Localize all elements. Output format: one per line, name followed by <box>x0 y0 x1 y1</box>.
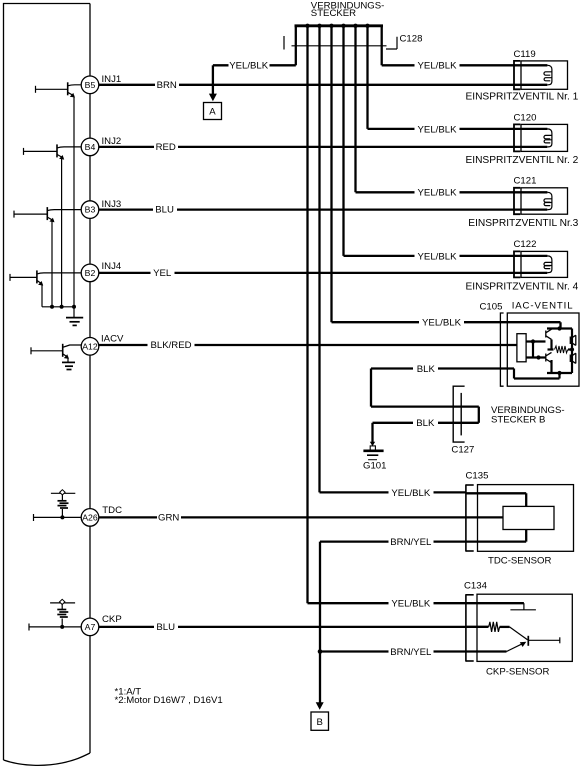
wire: YEL/BLK branch to injector 1 <box>382 64 548 66</box>
connector C128 (VERBINDUNGS-STECKER) <box>284 0 422 65</box>
svg-text:B3: B3 <box>85 205 96 215</box>
wire: BLU from pin A7 to CKP sensor <box>99 626 489 628</box>
CKP sensor internal: shield <box>466 603 536 610</box>
label YEL <box>151 268 175 279</box>
svg-text:YEL/BLK: YEL/BLK <box>418 61 458 72</box>
svg-text:INJ4: INJ4 <box>102 261 122 272</box>
label BLK (lower) <box>413 418 438 429</box>
wire: YEL/BLK branch to injector 2 <box>368 128 548 130</box>
svg-text:YEL/BLK: YEL/BLK <box>418 188 458 199</box>
svg-text:GRN: GRN <box>158 512 179 523</box>
svg-text:C127: C127 <box>451 444 474 455</box>
injector EINSPRITZVENTIL Nr.2 <box>521 124 568 151</box>
svg-text:C122: C122 <box>514 239 537 250</box>
injector C121 connector bracket <box>514 188 520 214</box>
svg-text:A7: A7 <box>85 622 96 632</box>
IAC internal transistors <box>546 329 576 363</box>
injector C119 connector bracket <box>514 61 520 89</box>
label RED <box>154 142 178 153</box>
svg-text:G101: G101 <box>363 461 386 472</box>
svg-text:RED: RED <box>156 142 176 153</box>
ground (injector drivers) <box>66 318 83 326</box>
svg-text:BRN/YEL: BRN/YEL <box>390 647 432 658</box>
IAC connector side rectangle <box>517 334 526 362</box>
svg-text:C128: C128 <box>400 33 423 44</box>
svg-text:A12: A12 <box>82 341 98 351</box>
transistor Q3 (INJ3 driver) <box>14 207 81 307</box>
svg-text:B5: B5 <box>85 80 96 90</box>
injector C122 connector bracket <box>514 251 520 277</box>
pin A7 <box>81 614 122 636</box>
svg-text:CKP-SENSOR: CKP-SENSOR <box>486 666 550 677</box>
svg-text:C134: C134 <box>464 581 488 592</box>
CKP sensor internal: output bar <box>528 636 560 646</box>
wire: bus 6 from C128 pin to injector 2 YEL/BLK branch <box>366 26 368 129</box>
svg-text:INJ2: INJ2 <box>102 136 122 147</box>
svg-text:STECKER: STECKER <box>311 8 356 19</box>
svg-text:STECKER B: STECKER B <box>491 415 545 426</box>
injector C120 connector bracket <box>514 124 520 151</box>
svg-text:C121: C121 <box>514 176 537 187</box>
TDC sensor internal wiring <box>466 493 526 541</box>
label VERBINDUNGS-STECKER B <box>491 405 565 426</box>
svg-text:C120: C120 <box>514 112 537 123</box>
svg-text:BLK: BLK <box>417 364 436 375</box>
TDC sensor element <box>503 506 554 529</box>
label BRN <box>155 80 179 91</box>
svg-text:YEL: YEL <box>153 268 172 279</box>
svg-text:*2:Motor D16W7 , D16V1: *2:Motor D16W7 , D16V1 <box>115 695 223 706</box>
wire: YEL/BLK branch to TDC sensor <box>320 491 467 493</box>
IAC internal junction dots <box>557 326 561 330</box>
wire: common emitter rail to ground <box>42 307 74 318</box>
injector EINSPRITZVENTIL Nr.4 <box>521 251 568 277</box>
wire: RED from pin B4 to injector 2 <box>99 146 548 148</box>
svg-text:YEL/BLK: YEL/BLK <box>229 61 269 72</box>
svg-text:CKP: CKP <box>102 614 122 625</box>
wire: BRN/YEL from TDC sensor down to CKP and connector B <box>320 542 466 704</box>
ground (IACV driver) <box>62 362 75 369</box>
IAC valve C105 connector bracket <box>500 313 503 386</box>
junction connector C127 <box>453 386 464 442</box>
filter network at pin A7 <box>29 603 81 631</box>
svg-text:EINSPRITZVENTIL Nr.3: EINSPRITZVENTIL Nr.3 <box>468 218 578 229</box>
node B (arrow to connector B) <box>311 702 329 730</box>
wire: BLK from IAC to junction connector B <box>371 369 507 423</box>
wire: bus 4 from C128 pin to injector 4 YEL/BLK branch <box>342 26 344 256</box>
pin B5 <box>81 74 121 94</box>
svg-text:TDC-SENSOR: TDC-SENSOR <box>488 555 551 566</box>
svg-text:A26: A26 <box>82 512 98 522</box>
CKP sensor internal: pickup coil <box>466 622 528 652</box>
pin A12 <box>81 334 124 356</box>
label BLU <box>153 205 177 216</box>
ECU box (left border, top border, right edge, torn bottom) <box>4 4 91 766</box>
injector EINSPRITZVENTIL Nr.1 <box>521 61 568 89</box>
CKP connector C134 bracket <box>466 594 474 661</box>
wire: bus 1 from C128 pin to CKP YEL/BLK branch <box>306 26 308 603</box>
svg-text:TDC: TDC <box>102 505 122 516</box>
svg-text:C135: C135 <box>466 471 489 482</box>
wire: YEL/BLK branch to CKP sensor <box>308 602 467 604</box>
injector EINSPRITZVENTIL Nr.3 <box>521 188 568 214</box>
svg-text:YEL/BLK: YEL/BLK <box>422 318 462 329</box>
svg-text:INJ3: INJ3 <box>102 199 122 210</box>
IAC internal wiring <box>507 329 572 379</box>
svg-text:YEL/BLK: YEL/BLK <box>418 124 458 135</box>
wire: BRN/YEL branch to CKP sensor <box>320 650 466 652</box>
ground G101 <box>363 423 386 472</box>
label GRN <box>157 512 181 523</box>
wire: YEL/BLK branch to IAC valve <box>332 322 561 328</box>
pin B2 <box>81 261 122 282</box>
wire: BLK/RED from pin A12 to IAC valve <box>99 344 517 346</box>
svg-text:EINSPRITZVENTIL Nr. 4: EINSPRITZVENTIL Nr. 4 <box>465 281 578 292</box>
junction dots on emitter rail <box>50 305 54 309</box>
footnote <box>115 687 223 706</box>
svg-text:IACV: IACV <box>101 334 124 345</box>
svg-text:A: A <box>209 107 216 118</box>
svg-text:C119: C119 <box>514 49 536 60</box>
svg-text:EINSPRITZVENTIL Nr. 2: EINSPRITZVENTIL Nr. 2 <box>465 155 578 166</box>
label BLK/RED <box>148 340 195 351</box>
svg-text:BLU: BLU <box>155 205 174 216</box>
node A (arrow to connector A) <box>204 94 222 120</box>
svg-text:C105: C105 <box>480 302 503 313</box>
filter network at pin A26 <box>34 493 82 521</box>
TDC connector C135 bracket <box>466 484 474 551</box>
wire: bus 2 from C128 pin to TDC YEL/BLK branch <box>318 26 320 493</box>
wire: BLU from pin B3 to injector 3 <box>99 208 548 210</box>
svg-text:EINSPRITZVENTIL Nr. 1: EINSPRITZVENTIL Nr. 1 <box>465 92 578 103</box>
transistor Q4 (INJ4 driver) <box>10 270 81 306</box>
svg-text:B: B <box>316 717 322 728</box>
IAC valve box <box>507 313 579 386</box>
svg-text:BLK/RED: BLK/RED <box>150 340 191 351</box>
transistor Q5 (IACV driver) <box>31 344 81 363</box>
svg-text:YEL/BLK: YEL/BLK <box>391 599 431 610</box>
svg-text:BLK: BLK <box>416 418 435 429</box>
svg-text:INJ1: INJ1 <box>102 74 122 85</box>
transistor Q1 (INJ1 driver) <box>36 82 82 306</box>
svg-text:YEL/BLK: YEL/BLK <box>391 488 431 499</box>
wire: YEL from pin B2 to injector 4 <box>99 272 548 274</box>
IAC internal coil <box>555 346 568 353</box>
wire: GRN from pin A26 to TDC sensor <box>99 516 503 518</box>
pin A26 <box>81 505 122 526</box>
svg-text:BRN/YEL: BRN/YEL <box>390 537 432 548</box>
wire: YEL/BLK from C128 to connector A, with label <box>213 60 296 94</box>
junction dot BRN/YEL <box>318 649 323 654</box>
TDC sensor box <box>478 485 574 552</box>
svg-text:B4: B4 <box>85 142 96 152</box>
wire: YEL/BLK branch to injector 3 <box>356 191 548 193</box>
wire: YEL/BLK branch to injector 4 <box>344 255 548 257</box>
pin B4 <box>81 136 121 156</box>
svg-text:B2: B2 <box>85 268 96 278</box>
svg-text:IAC-VENTIL: IAC-VENTIL <box>512 301 574 312</box>
pin B3 <box>81 199 121 219</box>
wire: BRN from pin B5 to injector 1 <box>99 84 548 86</box>
CKP sensor box <box>477 594 572 661</box>
svg-text:YEL/BLK: YEL/BLK <box>418 251 458 262</box>
wire: bus 3 from C128 pin to IAC YEL/BLK branch <box>330 26 332 322</box>
label BLU (CKP) <box>154 622 178 633</box>
wire: bus 5 from C128 pin to injector 3 YEL/BLK branch <box>354 26 356 193</box>
transistor Q2 (INJ2 driver) <box>24 144 82 306</box>
svg-text:BLU: BLU <box>156 622 175 633</box>
svg-text:BRN: BRN <box>157 80 177 91</box>
